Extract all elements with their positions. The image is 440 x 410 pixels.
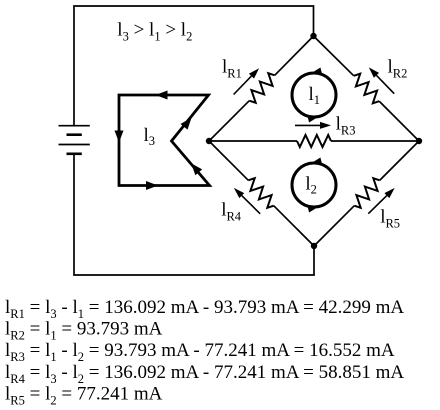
- current arrow IR4: [234, 188, 260, 214]
- mesh circle I1 arrow top: [312, 68, 323, 74]
- mesh loop I3 arrow top (left): [156, 91, 168, 100]
- svg-text:lR1 = l3 - l1 = 136.092 mA - 9: lR1 = l3 - l1 = 136.092 mA - 93.793 mA =…: [5, 297, 404, 321]
- wire bridge middle (R3 branch): [209, 140, 419, 142]
- node bottom: [311, 243, 317, 249]
- svg-text:lR2 = l1 = 93.793 mA: lR2 = l1 = 93.793 mA: [5, 319, 163, 343]
- resistor R4: [248, 178, 273, 208]
- battery B1: [59, 126, 90, 154]
- node top: [310, 33, 316, 39]
- mesh current loop I3: [119, 95, 210, 186]
- mesh circle I2 arrow top: [312, 158, 323, 164]
- wire bridge bottom-right edge: [314, 141, 419, 246]
- current arrow IR3: [295, 122, 331, 129]
- node right: [416, 138, 422, 144]
- mesh circle I2 arrow bottom: [308, 206, 319, 212]
- resistor R2: [354, 74, 379, 104]
- current arrow IR1: [234, 68, 260, 94]
- mesh current circle I2: [292, 163, 336, 207]
- wire bridge top-left edge: [209, 36, 314, 141]
- mesh loop I3 arrow left (down): [115, 131, 124, 143]
- svg-text:lR3 = l1 - l2 = 93.793 mA - 77: lR3 = l1 - l2 = 93.793 mA - 77.241 mA = …: [5, 340, 395, 364]
- resistor R1: [249, 73, 274, 103]
- wire bridge top-right edge: [314, 36, 420, 141]
- wire bridge bottom-left edge: [209, 141, 314, 246]
- node left: [206, 138, 212, 144]
- mesh loop I3 arrow upper diagonal (up-right): [181, 118, 192, 130]
- current arrow IR2: [369, 67, 394, 93]
- mesh loop I3 arrow bottom (right): [146, 181, 158, 190]
- resistor R5: [354, 178, 379, 208]
- current arrow IR5: [368, 188, 394, 214]
- wire top from battery to bridge: [74, 6, 314, 125]
- mesh loop I3 arrow lower diagonal (up-left): [191, 163, 202, 175]
- svg-text:lR4 = l3 - l2 = 136.092 mA - 7: lR4 = l3 - l2 = 136.092 mA - 77.241 mA =…: [5, 362, 404, 386]
- svg-text:lR5 = l2 = 77.241 mA: lR5 = l2 = 77.241 mA: [5, 383, 163, 407]
- wire bottom from battery to bridge: [74, 154, 314, 275]
- mesh current circle I1: [292, 73, 336, 117]
- mesh circle I1 arrow bottom: [308, 116, 319, 122]
- resistor R3: [297, 135, 331, 147]
